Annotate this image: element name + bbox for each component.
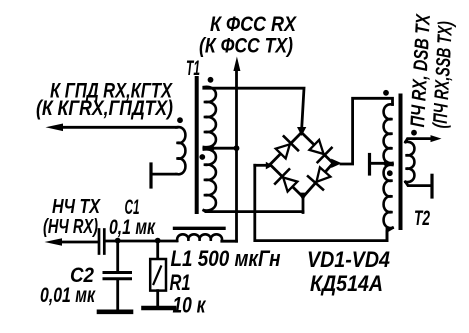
wire T2 tap to chassis: [371, 162, 387, 165]
wire T2 primary bottom elbow: [387, 228, 393, 241]
resistor R1 body: [150, 259, 166, 291]
T2 tap junction dot: [383, 160, 389, 166]
wire ring edge T-R: [302, 133, 334, 164]
T2 secondary polarity dot: [411, 130, 417, 136]
diode VD1 (left-top arm): [276, 144, 290, 158]
chassis bar at T1 primary: [149, 164, 152, 187]
arrow to НЧ (left): [45, 238, 63, 246]
T2 secondary winding: [406, 142, 415, 182]
T1 tertiary polarity dot: [199, 154, 205, 160]
transformer T2 core: [399, 96, 403, 229]
wire ring edge B-L: [270, 165, 303, 198]
junction dot R1 node: [155, 238, 161, 244]
transformer T1 core: [195, 78, 199, 212]
svg-text:(ПЧ RX,SSB TX): (ПЧ RX,SSB TX): [430, 21, 458, 129]
node left vertex arrow of ring: [266, 162, 273, 170]
node right vertex arrow of ring: [331, 159, 342, 168]
svg-text:(НЧ RX): (НЧ RX): [43, 216, 98, 238]
node bottom vertex of ring: [298, 193, 307, 201]
svg-text:(К КГRX,ГПДТХ): (К КГRX,ГПДТХ): [36, 97, 173, 120]
wire C2 top: [116, 241, 119, 272]
T1 secondary centre tap wire: [204, 147, 237, 150]
wire T1 lower bottom rail to diamond bottom: [204, 210, 303, 211]
node top vertex of ring: [297, 127, 306, 136]
junction dot tap at ФСС line: [234, 145, 240, 151]
T2 primary upper winding: [384, 104, 393, 163]
svg-text:VD1-VD4: VD1-VD4: [307, 247, 390, 272]
capacitor C2 plates: [104, 271, 131, 274]
wire diamond bottom stub: [302, 197, 305, 213]
ground at R1: [144, 306, 175, 311]
T2 primary polarity dot: [383, 90, 389, 96]
svg-text:НЧ ТХ: НЧ ТХ: [52, 196, 101, 218]
wire C2 bottom: [116, 280, 119, 311]
inductor L1 winding: [177, 234, 222, 241]
arrow to ФСС (up): [233, 57, 240, 72]
chassis bar at T2 tap: [368, 155, 371, 175]
wire ring edge L-T: [270, 133, 302, 165]
chassis bar at T2 secondary: [430, 175, 433, 197]
ground at C2: [99, 309, 131, 314]
T1 tertiary winding (lower): [204, 149, 216, 210]
junction dot tap at winding: [209, 145, 215, 151]
wire R1 bottom: [156, 291, 159, 307]
arrow to ПЧ (right): [431, 135, 442, 142]
wire diamond right to T2 primary: [341, 98, 393, 164]
svg-text:(К ФСС ТХ): (К ФСС ТХ): [199, 34, 293, 58]
wire НЧ arrow to C1: [57, 241, 98, 244]
T1 primary polarity dot: [177, 117, 183, 123]
junction dot C2 node: [115, 238, 121, 244]
inductor L1 core bar: [175, 227, 225, 230]
svg-text:0,1 мк: 0,1 мк: [109, 215, 156, 239]
wire T1 primary bottom to chassis: [152, 173, 177, 176]
T1 secondary upper winding: [204, 87, 216, 147]
svg-text:L1 500 мкГн: L1 500 мкГн: [171, 246, 281, 271]
wire T2 secondary top to ПЧ arrow: [406, 139, 433, 142]
wire R1 top: [156, 241, 159, 259]
wire ring edge R-B: [303, 163, 333, 197]
wire diamond left node line (line B): [255, 165, 387, 240]
capacitor C1 plates: [98, 230, 101, 254]
svg-text:К ФСС RX: К ФСС RX: [210, 12, 297, 36]
T2 primary lower winding: [384, 165, 393, 228]
svg-text:КД514А: КД514А: [310, 271, 383, 296]
wire К ФСС vertical (line A, T1 tap / L1 node): [235, 68, 238, 241]
svg-text:0,01 мк: 0,01 мк: [40, 284, 96, 307]
svg-text:10 к: 10 к: [173, 293, 207, 318]
T1 primary winding (left): [177, 127, 186, 174]
wire line B to diamond left: [255, 164, 267, 167]
T1 secondary top polarity dot: [208, 77, 214, 83]
wire L1 to line A elbow: [222, 240, 237, 243]
T2 tertiary polarity dot: [387, 170, 393, 176]
wire top rail T1 to diamond top: [204, 88, 304, 132]
wire T2 secondary bottom: [406, 182, 432, 186]
wire ГПД to T1 primary: [58, 126, 177, 129]
diode VD4 (right-bottom arm): [317, 167, 331, 181]
svg-text:R1: R1: [170, 270, 191, 295]
svg-text:Т2: Т2: [414, 206, 430, 230]
diode VD2 (top-right arm): [309, 140, 323, 154]
wire C1 to L1: [105, 240, 177, 243]
diode VD3 (bottom-left arm): [283, 178, 297, 192]
arrow to ГПД (left): [46, 124, 64, 132]
